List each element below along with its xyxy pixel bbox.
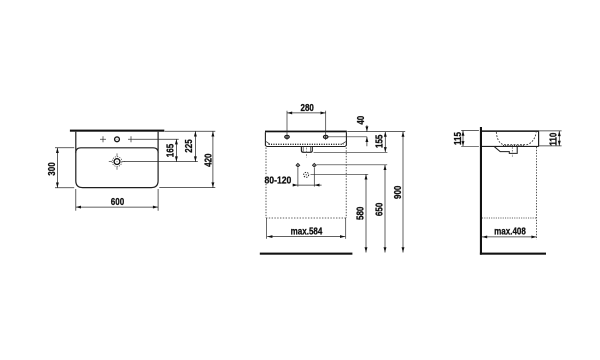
basin left side <box>265 132 266 146</box>
basin inner bottom serration <box>269 143 344 145</box>
svg-text:155: 155 <box>374 135 385 148</box>
cabinet depth dashed line <box>536 147 538 240</box>
extension from right tap hole <box>328 136 367 138</box>
svg-text:600: 600 <box>111 196 124 207</box>
basin top edge (thick) <box>265 131 347 133</box>
extension lines 115 <box>461 130 479 132</box>
fixing hole left <box>296 163 300 167</box>
dimension 650 <box>384 165 386 253</box>
svg-text:650: 650 <box>374 203 385 216</box>
extension line top (bar level) <box>165 130 216 132</box>
inner bowl end rise left <box>266 142 270 145</box>
drain trap side <box>495 147 518 154</box>
extension line faucet level <box>134 138 179 140</box>
dimension 40 (outside arrows) <box>366 125 368 131</box>
svg-text:300: 300 <box>46 162 57 175</box>
svg-text:110: 110 <box>548 133 559 146</box>
basin side profile top <box>482 130 539 132</box>
svg-text:225: 225 <box>183 139 194 152</box>
inner bowl end rise right <box>342 142 346 145</box>
cabinet dashed outline <box>266 148 346 219</box>
svg-text:580: 580 <box>355 207 366 220</box>
svg-text:280: 280 <box>300 102 313 113</box>
extension line left top (deck) <box>55 147 74 149</box>
dimension 115 <box>462 131 464 147</box>
extension line bottom right <box>159 187 215 189</box>
extension line left bottom <box>55 187 74 189</box>
plus mark left <box>100 136 106 142</box>
side bowl bottom serration <box>503 145 524 147</box>
extension line 900 top <box>347 131 405 133</box>
dimension 110 <box>558 131 560 146</box>
dimension 80-120 <box>293 184 322 186</box>
faucet hole <box>115 137 120 142</box>
centerline left tap hole <box>286 111 288 140</box>
dimension 420 <box>212 131 214 187</box>
tap hole right <box>324 135 328 138</box>
cabinet corner extension dotted right <box>345 218 347 239</box>
dimension 580 <box>365 174 367 252</box>
basin side front edge <box>538 130 540 146</box>
svg-text:900: 900 <box>392 186 403 199</box>
svg-text:420: 420 <box>203 153 214 166</box>
plus mark right <box>128 136 134 142</box>
extension line drain level <box>124 161 198 163</box>
extension lines 110 <box>539 130 562 132</box>
centerline right tap hole <box>325 111 327 140</box>
basin bottom edge <box>267 146 345 148</box>
bowl section dashed <box>496 132 536 145</box>
countertop rear bar (thick) <box>70 130 164 132</box>
dimension 900 <box>402 132 404 253</box>
fixing hole right <box>313 163 317 167</box>
tap hole left <box>285 135 289 138</box>
dimension max.584 <box>267 236 345 238</box>
dimension 225 <box>194 131 196 161</box>
basin side bottom <box>482 145 539 147</box>
dimension max.408 <box>482 236 537 238</box>
extension line 580 top <box>311 173 369 175</box>
svg-text:max.408: max.408 <box>494 226 526 237</box>
fixing hole extension left <box>297 168 299 187</box>
dimension 155 <box>384 132 386 153</box>
floor line side view (thick) <box>480 253 546 255</box>
svg-text:max.584: max.584 <box>291 226 323 237</box>
svg-text:115: 115 <box>452 132 463 145</box>
floor line front view (thick) <box>260 253 353 255</box>
extension line below left <box>75 189 77 211</box>
dimension 600 <box>76 206 158 208</box>
drain symbol <box>112 157 122 167</box>
wall (thick vertical) <box>480 127 482 255</box>
drain axis dashed <box>511 147 513 156</box>
basin right side <box>345 132 346 146</box>
svg-text:80-120: 80-120 <box>265 175 292 186</box>
extension line below right <box>157 189 159 211</box>
drain centerline <box>305 148 307 158</box>
extension line 650 top <box>317 164 388 166</box>
fixing hole extension right <box>313 168 315 187</box>
trap symbol <box>304 172 309 177</box>
svg-text:165: 165 <box>165 144 176 157</box>
cabinet bottom dotted line side view <box>482 217 537 219</box>
dimension 300 <box>56 148 58 188</box>
svg-text:40: 40 <box>355 116 366 125</box>
basin outer outline (sides + rounded bottom) <box>76 132 158 188</box>
basin deck front edge line <box>76 148 158 153</box>
cabinet corner extension dotted left <box>266 218 268 239</box>
drain outlet cup <box>301 147 312 153</box>
extension line 155 bottom <box>314 151 388 153</box>
dimension 165 <box>175 139 177 161</box>
dimension 280 <box>287 112 326 114</box>
